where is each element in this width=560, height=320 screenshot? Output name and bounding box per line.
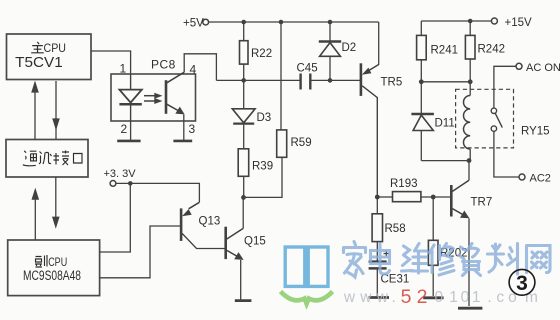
diode D3 — [232, 80, 271, 148]
arrow up (subCPU to comm) — [32, 188, 40, 240]
svg-text:w: w — [343, 289, 356, 306]
node dot coil bottom — [467, 158, 472, 163]
ground PC8 pin3 — [173, 140, 192, 143]
svg-text:D2: D2 — [342, 42, 357, 54]
svg-text:R241: R241 — [431, 45, 459, 57]
node dot TR5-R193-R58 — [375, 195, 380, 200]
wire +3.3V down to subCPU pin — [100, 183, 131, 252]
node dot coil top — [468, 79, 473, 84]
diode D2 — [319, 22, 356, 80]
ground Q15 — [235, 299, 252, 302]
block 副CPU U-sub — [8, 240, 100, 296]
svg-text:.: . — [487, 289, 491, 306]
wire PC8 pin2 down — [130, 121, 132, 140]
ground PC8 pin2 — [117, 140, 140, 143]
svg-text:D11: D11 — [435, 118, 455, 130]
node dot rail-D2 — [328, 20, 333, 25]
watermark book icon base — [281, 292, 333, 304]
resistor R22 — [240, 22, 273, 80]
wire node line right of C45 — [312, 79, 361, 81]
watermark hanzi 电 — [371, 244, 390, 274]
node dot rail-R242 — [468, 19, 473, 24]
svg-text:Q13: Q13 — [199, 216, 221, 228]
svg-text:1: 1 — [472, 289, 481, 306]
PC8 light arrows — [144, 93, 163, 104]
svg-text:R193: R193 — [390, 178, 418, 190]
watermark book icon pages — [285, 247, 328, 286]
node dot D11 top — [419, 79, 424, 84]
relay switch contact top — [491, 108, 496, 113]
watermark hanzi 维 — [402, 244, 428, 274]
ground CE31 — [369, 296, 389, 299]
transistor TR7 (NPN) — [451, 161, 492, 306]
wire +3.3V to Q13 emitter — [116, 183, 199, 202]
terminal +5V — [203, 19, 209, 25]
svg-text:PC8: PC8 — [151, 58, 176, 72]
terminal AC ON — [516, 63, 522, 69]
svg-text:4: 4 — [190, 63, 197, 77]
svg-text:3: 3 — [516, 272, 528, 295]
node dot rail-R59 — [279, 20, 284, 25]
svg-text:w: w — [376, 289, 389, 306]
arrow down (comm to subCPU) — [52, 177, 60, 229]
resistor R241 — [417, 21, 458, 82]
ground R202 — [423, 296, 443, 299]
wire switch to AC2 — [494, 131, 519, 177]
watermark hanzi 家 — [344, 242, 366, 278]
arrow down (mainCPU to comm) — [52, 81, 60, 140]
resistor R39 — [238, 149, 273, 198]
node dot R193-R202-TR7 — [431, 195, 436, 200]
transistor TR5 (PNP) — [361, 22, 402, 197]
svg-text:.: . — [392, 289, 396, 306]
svg-text:AC ON: AC ON — [526, 62, 560, 74]
svg-text:RY15: RY15 — [521, 126, 550, 138]
svg-text:Q15: Q15 — [244, 236, 266, 248]
resistor R193 — [377, 178, 450, 202]
svg-text:R58: R58 — [385, 223, 406, 235]
svg-text:R242: R242 — [478, 44, 506, 56]
node dot rail-R22 — [241, 20, 246, 25]
svg-text:+15V: +15V — [505, 17, 533, 29]
wire mainCPU to PC8 pin1 — [91, 51, 131, 74]
wire AC ON to switch — [494, 66, 516, 108]
svg-text:D3: D3 — [257, 112, 272, 124]
terminal AC2 — [519, 174, 525, 180]
wire subCPU pin2 to Q13 base — [100, 226, 180, 278]
wire base node line (left of C45) — [216, 79, 300, 81]
node dot R22-D3 — [241, 78, 246, 83]
svg-text:CPU: CPU — [44, 41, 67, 55]
circled number 3 — [509, 269, 535, 295]
svg-text:TR5: TR5 — [381, 77, 403, 89]
relay dashed enclosure — [456, 89, 514, 148]
svg-text:TR7: TR7 — [471, 197, 493, 209]
svg-text:0: 0 — [461, 289, 470, 306]
PC8 internal LED — [119, 74, 141, 121]
wire +5V rail — [209, 21, 379, 23]
resistor R242 — [465, 21, 505, 82]
optocoupler PC8 box — [111, 74, 196, 121]
svg-text:CPU: CPU — [48, 255, 67, 269]
terminal +3.3V — [110, 181, 116, 187]
svg-text:R39: R39 — [252, 161, 273, 173]
svg-text:1: 1 — [449, 289, 458, 306]
watermark url www.520101.com — [343, 286, 538, 308]
arrow up (comm to mainCPU) — [31, 81, 39, 140]
ground TR7 — [458, 307, 482, 310]
wire R39node to R59 — [244, 157, 283, 197]
svg-text:1: 1 — [120, 62, 127, 76]
PC8 phototransistor — [166, 72, 185, 114]
watermark hanzi 资 — [459, 244, 481, 276]
wire PC8 pin3 down — [183, 114, 185, 140]
svg-text:5: 5 — [401, 286, 412, 308]
block 通讯接口 comm interface — [6, 140, 88, 178]
svg-text:2: 2 — [417, 286, 428, 308]
node dot D2-TR5base — [328, 78, 333, 83]
resistor R58 — [372, 197, 406, 261]
capacitor CE31 (electrolytic, +) — [369, 251, 410, 296]
wire +15V rail — [421, 20, 491, 22]
watermark hanzi 网 — [527, 246, 551, 273]
svg-text:3: 3 — [189, 122, 196, 136]
transistor Q13 (PNP) — [181, 202, 225, 248]
svg-text:R59: R59 — [291, 137, 312, 149]
relay switch contact bottom — [491, 126, 496, 131]
block 主CPU U-main — [7, 34, 92, 80]
svg-text:R22: R22 — [251, 48, 272, 60]
watermark hanzi 料 — [488, 244, 518, 275]
relay switch blade — [495, 113, 502, 127]
svg-text:MC9S08A48: MC9S08A48 — [23, 268, 81, 283]
terminal +15V — [491, 18, 497, 24]
wire R241-R242 bottoms — [421, 81, 470, 83]
capacitor C45 — [297, 63, 318, 90]
svg-text:c: c — [496, 289, 504, 306]
svg-text:+3. 3V: +3. 3V — [104, 168, 137, 180]
zener diode D11 — [411, 82, 454, 161]
svg-text:+5V: +5V — [183, 18, 204, 30]
transistor Q15 (NPN) — [226, 197, 266, 299]
svg-text:C45: C45 — [297, 63, 318, 75]
wire D11 to coil bottom — [421, 160, 469, 162]
resistor R59 — [277, 22, 312, 157]
svg-text:2: 2 — [121, 122, 128, 136]
svg-text:w: w — [359, 289, 372, 306]
node dot R39-Q15 — [241, 195, 246, 200]
resistor R202 — [428, 197, 467, 296]
svg-text:AC2: AC2 — [530, 173, 551, 185]
node dot +3.3V — [128, 181, 133, 186]
wire PC8 pin4 to node line — [184, 54, 216, 81]
svg-text:0: 0 — [434, 289, 443, 306]
svg-text:T5CV1: T5CV1 — [15, 54, 62, 71]
relay coil RY15 — [464, 82, 471, 161]
watermark hanzi 修 — [430, 244, 455, 276]
